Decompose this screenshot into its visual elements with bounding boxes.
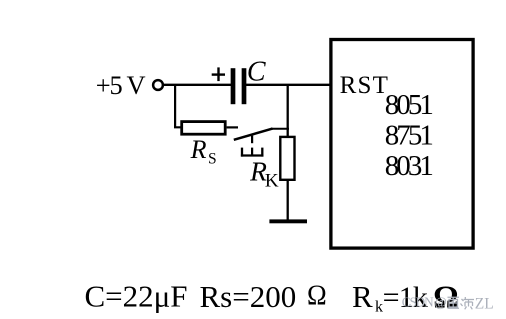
terminal circle bbox=[153, 80, 163, 90]
svg-text:RST: RST bbox=[340, 72, 388, 99]
ground bbox=[269, 219, 307, 223]
formula Rs=200 bbox=[200, 279, 297, 314]
label 8031 bbox=[385, 150, 434, 182]
svg-text:+5 V: +5 V bbox=[96, 70, 146, 100]
switch K actuator bracket bbox=[241, 148, 264, 157]
svg-text:CSDN @: CSDN @ bbox=[402, 295, 447, 310]
svg-text:ZL: ZL bbox=[475, 296, 494, 313]
svg-text:K: K bbox=[265, 171, 279, 192]
capacitor C plates bbox=[233, 68, 244, 104]
label C bbox=[247, 56, 266, 87]
resistor RK bbox=[280, 137, 294, 180]
wire: RK to ground bbox=[287, 180, 289, 220]
label 8051 bbox=[385, 89, 434, 121]
svg-text:S: S bbox=[208, 150, 217, 167]
label RST pin bbox=[340, 72, 388, 99]
switch K blade bbox=[234, 129, 273, 140]
formula C=22uF bbox=[85, 278, 188, 313]
wire: drop from rail to Rs bbox=[175, 86, 181, 128]
wire: Rs to switch bbox=[227, 126, 238, 128]
resistor Rs bbox=[182, 122, 226, 135]
svg-text:Ω: Ω bbox=[307, 279, 327, 311]
svg-text:Rs=200: Rs=200 bbox=[200, 279, 297, 314]
svg-text:C=22μF: C=22μF bbox=[85, 278, 188, 313]
svg-text:C: C bbox=[247, 56, 266, 87]
formula ohm bbox=[307, 279, 327, 311]
MCU box U1 8051/8751/8031 bbox=[331, 40, 473, 249]
svg-text:8031: 8031 bbox=[385, 150, 434, 182]
switch K actuator stem bbox=[251, 136, 253, 144]
label Rs bbox=[190, 135, 217, 167]
label 8751 bbox=[385, 120, 434, 152]
watermark CJK char 1 bbox=[448, 297, 460, 308]
svg-text:R: R bbox=[190, 135, 207, 164]
node: wire from rail down to RK bbox=[287, 85, 289, 137]
wire: switch to node bbox=[271, 128, 289, 130]
wire: terminal to RST rail bbox=[164, 84, 330, 86]
watermark CJK char 2 bbox=[461, 297, 475, 309]
capacitor C plus sign bbox=[212, 67, 225, 81]
+5V supply label bbox=[96, 70, 146, 100]
svg-text:8051: 8051 bbox=[385, 89, 434, 121]
svg-text:R: R bbox=[352, 279, 373, 314]
formula Rk=1k ohm bbox=[352, 279, 458, 316]
label RK bbox=[249, 156, 279, 192]
svg-text:8751: 8751 bbox=[385, 120, 434, 152]
watermark CSDN bbox=[402, 295, 494, 313]
